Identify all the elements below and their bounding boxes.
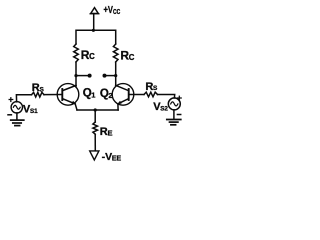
wire Q2 emitter lead: [117, 104, 119, 110]
transistor Q2: [112, 84, 134, 106]
junction emitter rail / RE: [94, 108, 97, 111]
source Vs2: [168, 98, 180, 110]
node left output terminal dot: [88, 74, 92, 78]
source Vs1: [11, 102, 22, 113]
resistor RS (right): [144, 92, 158, 97]
wire right collector drop: [115, 62, 117, 85]
svg-text:+: +: [8, 94, 13, 104]
junction left output node: [74, 74, 77, 77]
junction Vcc/rail: [92, 29, 95, 32]
svg-text:+VCC: +VCC: [104, 4, 121, 16]
resistor RE: [93, 122, 98, 134]
wire left output stub: [76, 75, 88, 77]
node right output terminal dot: [103, 74, 107, 78]
wire RS to Vs2: [158, 95, 175, 99]
svg-text:RS: RS: [32, 82, 45, 94]
svg-text:VS2: VS2: [153, 101, 168, 113]
svg-text:Q1: Q1: [83, 88, 96, 100]
svg-text:RS: RS: [145, 81, 158, 93]
polarity minus (left): [8, 114, 11, 116]
wire Q2 base: [129, 94, 144, 96]
power symbol +Vcc (up triangle): [90, 8, 99, 14]
svg-text:RC: RC: [120, 48, 134, 62]
junction right output node: [114, 74, 117, 77]
wire top rail: [76, 30, 116, 44]
wire RE stem top: [94, 110, 96, 122]
svg-text:+: +: [177, 93, 182, 103]
wire emitter rail: [77, 109, 118, 111]
wire Q1 emitter lead: [75, 104, 77, 110]
wire Vs1 ground stem: [16, 113, 18, 120]
ground (right): [167, 120, 181, 125]
resistor RC (left): [74, 44, 79, 62]
svg-text:-VEE: -VEE: [102, 151, 122, 163]
svg-text:RE: RE: [100, 126, 113, 138]
resistor RS (left): [32, 92, 45, 97]
svg-text:VS1: VS1: [23, 103, 38, 115]
wire RE stem bottom: [94, 134, 96, 150]
svg-text:RC: RC: [81, 48, 95, 62]
wire Q1 base: [44, 94, 62, 96]
wire right output stub: [106, 75, 116, 77]
resistor RC (right): [113, 44, 118, 62]
svg-text:Q2: Q2: [100, 88, 113, 100]
wire Vs1 to RS: [16, 95, 31, 102]
polarity minus (right): [177, 114, 180, 116]
transistor Q1: [57, 84, 79, 106]
wire Vs2 ground stem: [173, 110, 175, 119]
ground (left): [11, 120, 24, 126]
wire left collector drop: [75, 62, 77, 87]
wire Vcc stem: [93, 14, 95, 31]
power symbol -Vee (down triangle): [90, 151, 99, 160]
